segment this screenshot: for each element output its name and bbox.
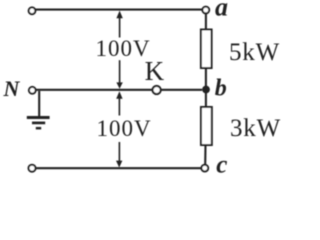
svg-text:N: N — [3, 76, 21, 101]
wire bottom (phase c feeder) — [36, 167, 202, 169]
terminal circle top-left — [29, 7, 36, 14]
svg-text:5kW: 5kW — [229, 39, 280, 66]
svg-text:3kW: 3kW — [230, 115, 281, 142]
svg-text:K: K — [145, 56, 165, 86]
ground stub wire — [38, 91, 40, 116]
resistor R2 (3kW) body — [201, 107, 212, 145]
svg-text:c: c — [216, 152, 227, 179]
node a terminal circle — [202, 7, 209, 14]
wire middle (neutral) left of switch — [36, 89, 153, 91]
svg-text:a: a — [215, 0, 228, 21]
voltage arrow upper (100V between a and b rails) — [116, 11, 122, 89]
wire resistor R2 to node c — [204, 145, 206, 165]
resistor R1 (5kW) body — [201, 30, 212, 69]
svg-text:100V: 100V — [96, 36, 151, 61]
wire middle right of switch — [161, 89, 202, 91]
switch K contact circle — [153, 86, 161, 94]
wire node a to resistor R1 — [205, 13, 207, 30]
svg-text:b: b — [215, 76, 227, 102]
voltage arrow lower (100V between b and c rails) — [116, 91, 123, 167]
node c terminal circle — [201, 165, 208, 172]
ground symbol bars — [27, 118, 50, 129]
terminal circle bottom-left — [29, 165, 36, 172]
wire resistor R1 to node b — [205, 68, 207, 90]
wire top (phase a feeder) — [36, 9, 203, 11]
svg-text:100V: 100V — [97, 116, 152, 141]
wire node b to resistor R2 — [205, 90, 207, 108]
terminal circle middle-left (N) — [29, 87, 36, 94]
node b junction dot — [202, 86, 210, 94]
